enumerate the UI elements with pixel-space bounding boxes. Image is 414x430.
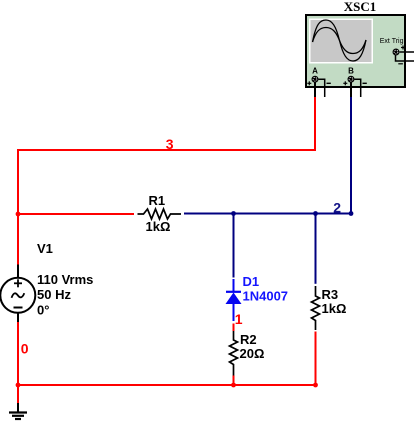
svg-text:1: 1 [235,311,243,327]
svg-text:3: 3 [166,136,174,152]
svg-text:Ext Trig: Ext Trig [380,38,404,45]
svg-text:D1: D1 [243,274,260,289]
svg-text:R1: R1 [149,193,166,208]
svg-text:1kΩ: 1kΩ [146,219,171,234]
svg-text:R3: R3 [322,287,339,302]
svg-text:B: B [348,67,354,76]
svg-text:A: A [312,67,318,76]
svg-text:R2: R2 [240,332,257,347]
svg-text:XSC1: XSC1 [344,0,377,14]
svg-text:0°: 0° [37,303,49,318]
svg-text:2: 2 [333,200,341,216]
svg-text:0: 0 [21,341,29,357]
svg-text:1kΩ: 1kΩ [322,301,347,316]
svg-text:20Ω: 20Ω [240,346,265,361]
svg-text:V1: V1 [37,241,53,256]
svg-text:110 Vrms: 110 Vrms [37,272,93,287]
svg-text:50 Hz: 50 Hz [37,287,71,302]
svg-text:1N4007: 1N4007 [243,288,289,303]
